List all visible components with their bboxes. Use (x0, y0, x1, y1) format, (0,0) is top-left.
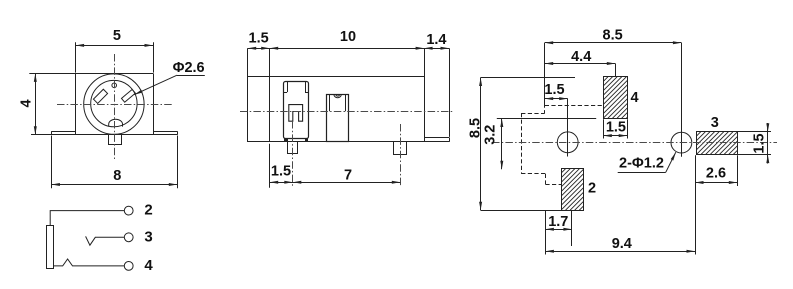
dimension 1.7 (545, 211, 572, 255)
front view: horizontal centerline (57, 104, 172, 106)
pcb footprint: dashed component outline (staircase) (521, 104, 603, 185)
svg-text:7: 7 (344, 168, 352, 184)
side view: contact window (staple shape) (289, 105, 303, 122)
svg-text:8: 8 (113, 168, 121, 184)
side view: left pin centerline (292, 121, 294, 187)
dimension 8 (flange width) (51, 136, 177, 189)
pcb footprint: left mounting hole (557, 132, 578, 153)
pcb footprint: pad 4 (hatched) (562, 77, 673, 119)
label PHI 2.6 with leader to bore (134, 60, 205, 94)
side view: internal front wall (269, 77, 271, 142)
schematic: pin 2 wire (50, 211, 124, 226)
front view: vertical centerline (114, 54, 116, 159)
dimension 8.5 (top) (545, 28, 682, 104)
pcb footprint: vertical line through right hole (681, 43, 683, 157)
svg-text:1.4: 1.4 (426, 32, 446, 48)
svg-text:8.5: 8.5 (603, 28, 623, 44)
front view: bottom center tab (109, 135, 122, 145)
side view: right bottom flange (424, 138, 449, 142)
dimension 4.4 (545, 49, 616, 77)
front view: outer barrel circle (84, 74, 144, 134)
front view: right mounting flange (153, 131, 178, 135)
svg-text:1.5: 1.5 (606, 120, 626, 136)
front view: bottom dome contact (109, 119, 123, 126)
side view: right pin centerline (400, 124, 402, 187)
side view top dimensions 1.5 / 10 / 1.4 (248, 29, 450, 137)
dimension 3.2 (left vertical) (483, 119, 504, 170)
side view: right solder pin (394, 142, 407, 155)
schematic: pin 4 terminal circle (124, 262, 133, 271)
schematic: pin 3 terminal circle (124, 233, 133, 242)
svg-text:2: 2 (588, 180, 596, 196)
label 2-PHI1.2 with leader to right hole (618, 152, 676, 172)
svg-text:10: 10 (340, 29, 356, 45)
svg-text:5: 5 (113, 28, 121, 44)
pcb footprint: pad 2 (hatched) (520, 169, 626, 211)
dimension 8.5 (left vertical) (468, 78, 484, 211)
pcb footprint: vertical line through left hole (567, 99, 569, 157)
svg-text:Φ2.6: Φ2.6 (173, 60, 205, 76)
front view: right internal contact (121, 89, 135, 102)
svg-text:4: 4 (630, 90, 638, 106)
svg-text:1.5: 1.5 (752, 133, 768, 153)
dimension 5 (front width) (76, 28, 154, 72)
svg-text:8.5: 8.5 (468, 118, 484, 138)
svg-text:1.5: 1.5 (271, 164, 291, 180)
side view: contact feet (285, 139, 308, 142)
svg-text:2.6: 2.6 (706, 165, 726, 181)
svg-text:4.4: 4.4 (571, 49, 591, 65)
dimension 2.6 (pad 3 width) (695, 155, 738, 186)
svg-text:3.2: 3.2 (483, 125, 499, 145)
front view: small top pin circle (112, 83, 117, 88)
pcb footprint: horizontal centerline (492, 142, 777, 144)
svg-text:9.4: 9.4 (612, 236, 632, 252)
schematic: pin 2 terminal circle (124, 206, 133, 215)
side view: left solder pin (288, 142, 298, 154)
dimension 9.4 (545, 155, 695, 254)
pcb footprint: pad 3 (hatched) (673, 132, 760, 155)
dimension 1.5 (to left hole) (544, 82, 567, 100)
svg-text:1.5: 1.5 (544, 82, 564, 98)
pcb footprint: right mounting hole (671, 132, 692, 153)
schematic: pin 4 wire with spring bump (54, 259, 124, 266)
side view: middle component (switch contact) (327, 94, 349, 141)
front view: left mounting flange (51, 131, 75, 135)
svg-text:3: 3 (144, 228, 152, 245)
svg-text:4: 4 (144, 257, 153, 274)
side view bottom dimensions 1.5 / 7 (270, 144, 401, 188)
schematic: pin 3 switch contact wire (86, 236, 125, 245)
svg-text:1.5: 1.5 (249, 31, 269, 47)
svg-text:2-Φ1.2: 2-Φ1.2 (619, 156, 664, 172)
svg-text:4: 4 (19, 99, 35, 107)
front view: jack body outline (29, 73, 177, 134)
svg-text:2: 2 (144, 202, 152, 219)
dimension 1.5 (pad 4 width) (603, 119, 627, 138)
dimension 1.5 (pad 3 height, right) (737, 123, 771, 164)
dimension 4 (front height) (19, 73, 37, 134)
front view: inner bore circle (diameter 2.6) (91, 80, 137, 126)
svg-text:1.7: 1.7 (548, 214, 568, 230)
side view: contact assembly (left component) (284, 81, 309, 139)
side view: body outline (248, 77, 425, 142)
svg-text:3: 3 (711, 115, 719, 131)
schematic: sleeve contact bar (47, 226, 54, 269)
pcb extension lines left (481, 78, 597, 211)
front view: left internal contact (93, 89, 107, 103)
side view: horizontal centerline (240, 111, 453, 113)
